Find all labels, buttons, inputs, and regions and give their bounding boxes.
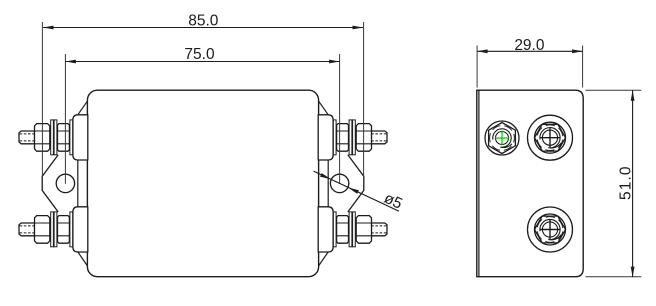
extension line 75 right (339, 54, 341, 184)
leader diameter 5 (314, 171, 405, 213)
right end plate chamfer bottom (318, 252, 328, 266)
extension line 51 bottom (586, 276, 642, 278)
left end plate chamfer bottom (78, 252, 88, 266)
phase terminal top (528, 115, 573, 160)
svg-text:75.0: 75.0 (184, 46, 215, 63)
ground mark green cross (495, 131, 510, 146)
right mounting hole (330, 174, 348, 192)
left mounting bracket (42, 155, 58, 212)
phase terminal bottom (528, 207, 573, 252)
extension line 75 left (64, 54, 66, 184)
terminal bottom-right (318, 207, 387, 252)
right end plate edge (327, 115, 329, 252)
left end plate chamfer top (78, 101, 88, 115)
svg-text:51.0: 51.0 (617, 165, 634, 200)
left mounting hole (56, 174, 74, 192)
extension line 85 right (363, 22, 365, 176)
terminal top-left (19, 115, 88, 160)
svg-text:29.0: 29.0 (514, 37, 545, 54)
terminal bottom-left (19, 207, 88, 252)
left end plate edge (77, 115, 79, 252)
side plate inner edge (478, 90, 480, 277)
extension line 51 top (586, 89, 642, 91)
dimension 75.0 (65, 46, 339, 63)
svg-text:ø5: ø5 (381, 190, 405, 213)
extension line 29 right (582, 46, 584, 88)
extension line 29 left (476, 46, 478, 88)
terminal top-right (318, 115, 387, 160)
right end plate chamfer top (318, 101, 328, 115)
extension line 85 left (41, 22, 43, 176)
svg-text:85.0: 85.0 (188, 13, 219, 30)
dimension 29.0 (477, 37, 582, 54)
side plate (477, 90, 583, 277)
dimension 85.0 (43, 13, 363, 30)
dimension 51.0 (617, 90, 634, 277)
right mounting bracket (348, 155, 364, 212)
filter body (87, 90, 318, 277)
ground terminal (485, 121, 519, 155)
